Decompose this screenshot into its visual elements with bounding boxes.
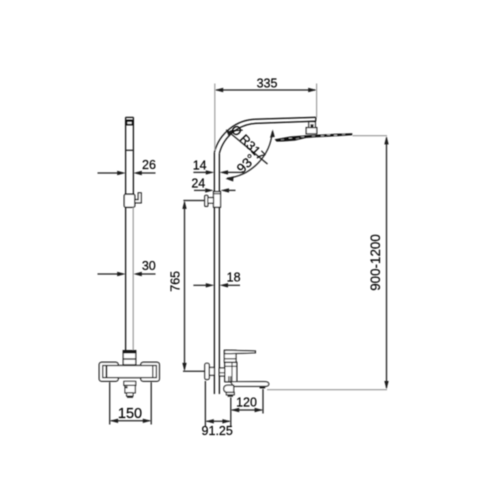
rail joint tick bbox=[126, 149, 134, 151]
svg-text:30: 30 bbox=[142, 259, 156, 273]
shower head ball joint bbox=[309, 122, 316, 128]
dimension 900-1200 bbox=[353, 135, 388, 137]
mixer side view: handle body bbox=[224, 350, 236, 362]
lower outlet capsule bbox=[224, 385, 234, 392]
mixer side view: wall knob disc bbox=[205, 363, 209, 379]
curved arm bend outer bbox=[214, 117, 316, 152]
svg-text:150: 150 bbox=[118, 406, 142, 422]
wall bracket (side view) bbox=[214, 192, 221, 208]
mixer underbody outlet stack bbox=[124, 381, 136, 385]
svg-text:335: 335 bbox=[257, 77, 278, 91]
svg-text:765: 765 bbox=[169, 271, 183, 292]
svg-text:26: 26 bbox=[142, 158, 156, 172]
dimension 14 bbox=[193, 171, 244, 173]
svg-text:24: 24 bbox=[191, 176, 205, 190]
mixer side view: handle lever bbox=[225, 350, 256, 353]
dimension 765 bbox=[183, 200, 204, 202]
wall bracket knob stem bbox=[208, 198, 214, 204]
dimension 150 bbox=[109, 382, 111, 424]
svg-text:18: 18 bbox=[227, 270, 241, 284]
svg-text:91.25: 91.25 bbox=[202, 424, 233, 438]
rail top cap band bbox=[127, 121, 133, 124]
dimension 91.25 bbox=[204, 381, 206, 427]
radius label leader bbox=[226, 130, 267, 164]
svg-text:120: 120 bbox=[236, 395, 257, 409]
shower head (edge view, dark nozzle face) bbox=[275, 133, 353, 141]
mixer body front view: right end cap bbox=[141, 362, 160, 381]
dimension 26 bbox=[98, 172, 156, 174]
arm end cap bbox=[315, 117, 317, 121]
wall bracket knob disc bbox=[205, 195, 208, 206]
shower head speckles bbox=[281, 134, 345, 139]
dimension 335 bbox=[214, 84, 216, 151]
rail collar above mixer bbox=[123, 351, 136, 365]
svg-text:14: 14 bbox=[193, 158, 207, 172]
hand shower holder bracket bbox=[124, 194, 135, 207]
shower head connector flange bbox=[306, 128, 317, 134]
mixer body front view: left end cap bbox=[99, 362, 118, 381]
dimension 18 bbox=[193, 284, 240, 286]
mixer body front view: central body bbox=[103, 366, 157, 378]
lower outlet block bbox=[226, 392, 234, 394]
slide rail tube bbox=[126, 117, 134, 194]
holder hook bbox=[135, 193, 141, 203]
dimension 120 bbox=[230, 397, 232, 413]
mixer side view: main body bbox=[225, 362, 237, 381]
dimension 30 bbox=[98, 273, 156, 275]
svg-text:900-1200: 900-1200 bbox=[368, 234, 383, 291]
spout (side view) bbox=[231, 382, 269, 387]
curved arm bend inner bbox=[219, 121, 315, 153]
rail lower part bbox=[125, 207, 127, 350]
mixer side view: connector to pipe bbox=[219, 368, 224, 376]
spout aerator bbox=[260, 386, 266, 388]
93 degree arc bbox=[227, 132, 272, 179]
mixer side view: wall knob stem bbox=[209, 368, 214, 376]
dimension 24 bbox=[194, 189, 236, 191]
column pipe bbox=[213, 152, 215, 394]
